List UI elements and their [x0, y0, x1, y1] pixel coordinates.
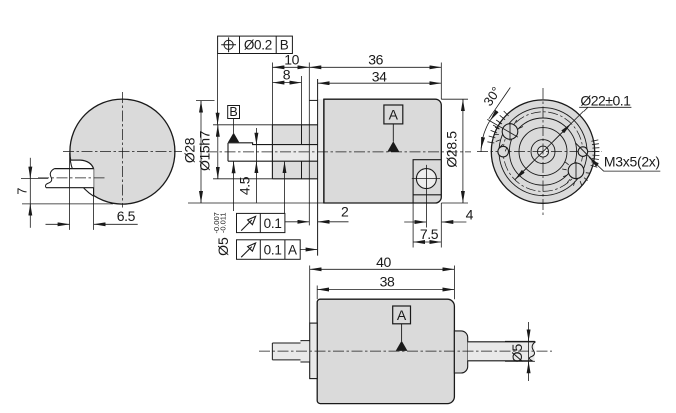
svg-text:A: A	[288, 242, 297, 257]
boss bottom edge	[272, 178, 317, 180]
hole B (left)	[498, 146, 509, 157]
serration ticks outer edge upper-left	[487, 111, 508, 143]
svg-text:B: B	[229, 105, 237, 119]
M3 leader	[589, 157, 660, 171]
svg-text:-0.011: -0.011	[218, 212, 227, 233]
white panel ring region	[309, 101, 317, 203]
inner circles	[499, 108, 587, 196]
svg-text:34: 34	[372, 68, 387, 84]
body left edge	[323, 99, 325, 203]
svg-text:4: 4	[466, 207, 474, 223]
dim Ø28.5 extension lines	[441, 98, 468, 100]
runout 1 leader up to shaft	[284, 162, 286, 214]
front plate strip	[318, 99, 324, 203]
dim Ø28 line	[200, 101, 202, 203]
dim 4 (screw center to rear)	[425, 193, 427, 228]
notch vertical edge	[93, 169, 95, 197]
svg-text:0.1: 0.1	[264, 242, 282, 257]
svg-text:7: 7	[16, 188, 30, 195]
dim 34	[318, 82, 441, 84]
svg-text:40: 40	[376, 254, 391, 270]
shaft band inside boss	[272, 145, 317, 162]
svg-text:M3x5(2x): M3x5(2x)	[604, 153, 660, 169]
left-view shaft (offset output shaft)	[46, 169, 94, 188]
right view centerlines	[542, 88, 544, 216]
main axis centerline	[206, 151, 471, 153]
svg-text:38: 38	[380, 274, 395, 290]
shaft end	[227, 143, 229, 161]
svg-text:Ø5: Ø5	[509, 343, 525, 362]
datum B box	[228, 106, 240, 119]
svg-text:Ø0.2: Ø0.2	[244, 38, 272, 53]
dim Ø22 diagonal line	[515, 111, 584, 180]
dim 36	[440, 63, 442, 100]
svg-text:36: 36	[368, 51, 383, 67]
shaft bottom line	[228, 160, 318, 162]
svg-text:Ø28.5: Ø28.5	[444, 131, 460, 168]
dim 40	[309, 266, 311, 324]
position symbol	[224, 40, 233, 49]
screw crosshair	[412, 178, 440, 180]
protruding front shaft (main view)	[228, 143, 272, 161]
svg-text:A: A	[389, 107, 399, 123]
panel top edge	[309, 99, 324, 101]
notch fillet	[81, 160, 94, 169]
circle vertical centerline	[121, 92, 123, 208]
circle arc at notch left boundary	[70, 160, 93, 196]
svg-text:8: 8	[283, 67, 291, 83]
rear shaft break squiggle	[529, 342, 535, 361]
dim 7 arrows	[29, 170, 31, 178]
dim Ø15h7 line	[217, 125, 219, 179]
dim 7 extension bottom (circle bottom tangent)	[22, 203, 113, 205]
shaft top line	[228, 143, 318, 145]
dim 10	[271, 63, 273, 125]
circle horizontal centerline	[63, 151, 182, 153]
bottom view front shaft	[272, 341, 309, 362]
Ø15h7 boss slab	[272, 125, 317, 179]
runout 2 leader to plate face	[300, 249, 317, 251]
svg-text:4.5: 4.5	[237, 176, 253, 195]
svg-text:6.5: 6.5	[117, 208, 136, 224]
screw circle	[416, 169, 436, 189]
dim 4.5	[255, 128, 257, 203]
datum A (main view)	[384, 105, 403, 124]
dim 38	[316, 286, 318, 300]
svg-text:Ø15h7: Ø15h7	[197, 130, 213, 171]
rear shaft with break	[468, 342, 535, 361]
runout frame 1	[237, 213, 285, 232]
thread ticks around hole A	[494, 120, 523, 151]
dim Ø5 rear shaft	[505, 340, 535, 342]
svg-text:2: 2	[341, 204, 349, 220]
boss top edge	[272, 124, 317, 126]
boss front face line	[271, 125, 273, 179]
shaft centerline	[38, 177, 105, 179]
bottom body	[317, 299, 454, 403]
Ø22 leader underline and text	[579, 107, 631, 111]
hole A (upper left)	[502, 124, 518, 140]
svg-text:Ø5: Ø5	[215, 237, 231, 256]
feature control frame position Ø0.2 B	[218, 36, 293, 53]
dim 8	[301, 76, 303, 125]
strip front edge line	[317, 79, 319, 256]
runout frame 2	[237, 240, 301, 259]
rear disc	[491, 100, 594, 203]
plate face ext line (10/36, 2 dim)	[308, 63, 310, 226]
hole D (lower right)	[568, 163, 584, 179]
dim 7 line	[29, 158, 31, 228]
svg-text:0.1: 0.1	[264, 216, 282, 231]
datum A (bottom view)	[393, 306, 411, 324]
hole C (right, M3)	[578, 147, 588, 157]
rear hub	[454, 331, 467, 373]
dim Ø28 extension lines	[196, 100, 215, 102]
motor front circle Ø28	[70, 99, 175, 204]
FCF leader down to Ø15 ext	[217, 54, 219, 125]
svg-text:30°: 30°	[480, 84, 503, 109]
dim 2 with runout1 side leader	[285, 221, 309, 223]
shaft break line	[46, 169, 55, 188]
front collar (bottom view)	[310, 323, 318, 379]
svg-text:7.5: 7.5	[420, 226, 439, 242]
dim 6.5 extension lines	[69, 153, 71, 230]
notch top edge	[70, 159, 80, 161]
svg-text:Ø22±0.1: Ø22±0.1	[580, 93, 631, 109]
dim Ø5 line with tolerance	[233, 162, 235, 212]
motor body (main view)	[324, 99, 441, 203]
30 deg radial line	[487, 119, 518, 137]
bolt circle Ø22	[503, 112, 583, 192]
thread ticks around hole D	[562, 162, 590, 186]
svg-text:A: A	[397, 307, 407, 323]
dim 7 extension top (shaft axis)	[21, 177, 48, 179]
boss step line 8mm	[301, 125, 303, 179]
dim Ø15h7 extension lines	[213, 124, 272, 126]
datum B stem and triangle	[233, 119, 235, 134]
dim 7.5	[412, 203, 414, 248]
serration ticks outer edge right	[591, 140, 600, 167]
bottom view centerline	[259, 350, 552, 352]
30 deg arc with arrows	[481, 121, 490, 151]
notch cutout in circle	[70, 160, 93, 196]
dim Ø28.5 line	[462, 99, 464, 203]
svg-text:Ø28: Ø28	[182, 137, 198, 163]
dim 6.5 tails with arrows	[46, 223, 70, 225]
30 deg label underline	[489, 88, 511, 119]
screw box	[413, 160, 441, 203]
svg-text:10: 10	[284, 51, 299, 67]
